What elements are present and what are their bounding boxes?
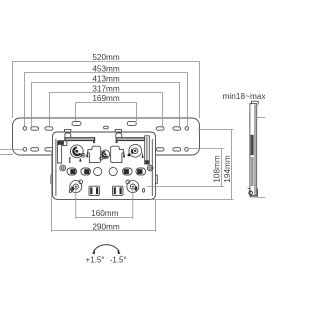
svg-text:+1.5°: +1.5° — [86, 255, 105, 264]
plate left ear — [51, 175, 53, 184]
svg-text:min18~max65: min18~max65 — [223, 91, 266, 101]
left latch — [88, 146, 101, 162]
svg-text:-1.5°: -1.5° — [110, 255, 127, 264]
rail slots row2 right — [156, 148, 188, 152]
svg-text:413mm: 413mm — [92, 74, 119, 83]
tiny oval left — [69, 189, 71, 193]
plate top tab left — [65, 129, 71, 132]
pill slot 2 — [81, 168, 91, 175]
washer left — [60, 165, 66, 171]
left latch arrow — [86, 151, 88, 157]
svg-text:194mm: 194mm — [223, 155, 232, 182]
lower-left knob — [70, 180, 83, 193]
svg-text:290mm: 290mm — [92, 223, 119, 232]
dim 317mm — [50, 93, 163, 127]
side view profile — [248, 101, 259, 197]
svg-text:169mm: 169mm — [92, 94, 119, 103]
svg-text:520mm: 520mm — [92, 53, 119, 62]
wall rail outline — [13, 118, 200, 155]
bracket plate outline — [53, 132, 156, 199]
plate right ear — [156, 175, 158, 184]
dim 413mm — [32, 83, 180, 127]
upper-right knob — [128, 144, 142, 157]
upper-left knob — [69, 145, 85, 163]
lower-right knob — [126, 180, 139, 193]
ring left — [94, 167, 102, 175]
middle knob — [100, 150, 110, 160]
plate top bar right segment — [116, 137, 146, 143]
dim 290mm bottom — [52, 152, 156, 232]
plate inner edge lines — [55, 139, 57, 196]
side view dark hooks — [251, 135, 254, 155]
plate top bar left segment — [64, 137, 95, 143]
plate top tab right — [115, 129, 121, 132]
clip right — [113, 186, 123, 195]
right vertical hook — [145, 136, 150, 164]
pill slot 3 — [123, 168, 133, 175]
tilt arrow right — [117, 250, 121, 255]
pill slot 1 — [67, 168, 77, 175]
svg-text:317mm: 317mm — [92, 84, 119, 93]
rail slots row2 left — [23, 148, 53, 152]
left L hook — [58, 141, 67, 163]
right latch arrow — [123, 151, 125, 157]
side view foot dot — [249, 191, 253, 195]
tilt arc — [93, 245, 119, 252]
ring right — [109, 167, 117, 175]
svg-text:108mm: 108mm — [213, 155, 222, 182]
svg-text:160mm: 160mm — [91, 209, 118, 218]
rail slots row1 right — [156, 127, 188, 131]
extension lines far left — [0, 150, 23, 155]
rail upper slots near plate — [72, 121, 136, 128]
dim 520mm — [13, 62, 200, 119]
clip left — [89, 186, 99, 195]
dim 453mm — [25, 73, 188, 127]
dim 169mm — [76, 103, 137, 122]
side view witness lines — [257, 118, 265, 198]
pill slot 4 — [136, 168, 146, 175]
svg-text:453mm: 453mm — [92, 64, 119, 73]
right latch — [111, 146, 124, 162]
rail slots row1 left — [23, 127, 53, 131]
tiny oval right — [143, 188, 145, 192]
dim 108mm vertical — [147, 149, 225, 187]
washer right — [147, 165, 153, 171]
tilt arrow left — [92, 250, 96, 255]
dim 194mm vertical — [150, 130, 234, 200]
dim 160mm bottom — [76, 186, 133, 218]
